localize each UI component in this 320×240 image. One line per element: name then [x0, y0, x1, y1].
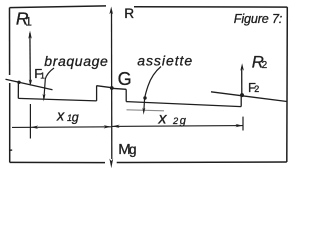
assiette leader arrow	[144, 67, 161, 112]
hull step up at left of G	[96, 86, 98, 101]
svg-text:R: R	[124, 6, 134, 21]
horizontal reference line (assiette datum, faint)	[127, 110, 165, 111]
svg-text:1: 1	[40, 71, 45, 81]
frame border	[10, 6, 288, 163]
hull step down right of G	[125, 89, 127, 101]
force arrow R2 (up)	[241, 67, 243, 94]
dimension line x2g	[112, 125, 243, 128]
hull top edge right of G	[112, 88, 126, 89]
braquage leader arrow	[44, 68, 54, 99]
svg-text:g: g	[129, 142, 137, 157]
force arrow R (up, top of axis)	[109, 7, 113, 15]
svg-text:G: G	[118, 69, 132, 89]
hull top edge to G	[97, 86, 112, 88]
front ski pivot dot	[17, 81, 20, 84]
force arrow R1 (up) / F1 (down) shared stem	[29, 33, 31, 84]
svg-text:x: x	[158, 110, 168, 127]
weight arrow Mg (down, bottom of axis)	[109, 159, 113, 169]
svg-text:braquage: braquage	[44, 53, 108, 69]
central axis line through G	[111, 12, 113, 159]
dimension line x1g	[12, 126, 111, 129]
hull bottom edge (right deck)	[126, 102, 241, 107]
svg-text:2: 2	[262, 60, 268, 71]
dimension extension tick left (under F1 point)	[29, 104, 31, 139]
svg-text:g: g	[180, 115, 187, 127]
assiette pivot dot	[143, 96, 146, 99]
svg-text:x: x	[56, 109, 65, 125]
hull bottom edge (left)	[18, 98, 96, 101]
rear ski pivot dot (F2 point)	[240, 93, 244, 97]
front ski top edge (deflected)	[6, 79, 53, 90]
rear ski line	[211, 92, 287, 102]
svg-text:2: 2	[172, 116, 179, 126]
tick on left border	[9, 149, 12, 151]
node G dot	[110, 86, 114, 90]
svg-text:1: 1	[25, 15, 32, 29]
svg-text:g: g	[72, 110, 79, 124]
dimension extension tick right (under F2 point)	[242, 117, 244, 131]
svg-text:Figure 7:: Figure 7:	[234, 12, 282, 26]
svg-text:assiette: assiette	[137, 53, 192, 69]
hull left edge	[17, 83, 19, 99]
svg-text:2: 2	[254, 84, 259, 94]
hull step up at rear	[240, 95, 242, 106]
